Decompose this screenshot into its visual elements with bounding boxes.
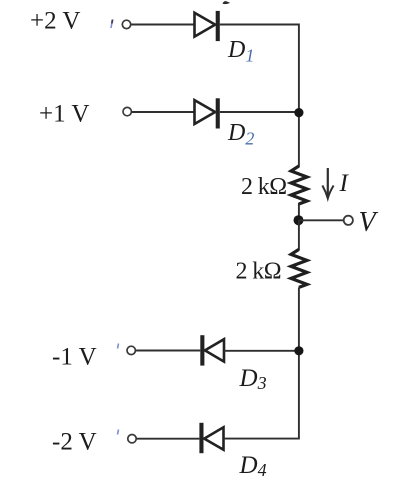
wire V node to R2 top [298,220,300,250]
terminal -2V [128,435,136,443]
junction dot D2/rail [294,108,303,117]
diode D3 [200,335,224,365]
wire +1V terminal to D2 anode [132,111,195,113]
svg-text:D4: D4 [239,452,267,480]
wire +2V terminal to D1 anode [131,24,195,26]
wire V node to output terminal [299,219,344,221]
terminal V output [344,216,353,225]
svg-text:V: V [359,207,379,238]
resistor R1 2 kOhm [291,166,307,204]
wire D4 anode to bottom-right corner [224,438,300,440]
diode D1 [195,11,220,41]
svg-text:-1 V: -1 V [52,344,97,371]
svg-text:+1 V: +1 V [39,100,89,127]
svg-text:2 kΩ: 2 kΩ [241,174,286,200]
wire -1V terminal to D3 cathode [136,350,201,352]
diode D4 [199,423,223,453]
junction dot V node [294,215,304,225]
artifact tick above D1 [223,1,231,4]
svg-text:+2 V: +2 V [30,8,80,35]
current arrow I [322,168,333,198]
wire D3 anode to rail [224,350,299,352]
resistor R2 2 kOhm [291,249,307,287]
diode D2 [195,98,220,128]
wire -2V terminal to D4 cathode [136,438,199,440]
wire D2 cathode to rail [220,111,299,113]
junction dot D3/rail [294,346,303,355]
wire R2 bottom down rail to D4 corner [298,287,300,438]
svg-text:I: I [339,170,350,197]
artifact tick near -1V terminal [118,344,119,349]
wire R1 bottom to V node [298,203,300,226]
svg-text:-2 V: -2 V [52,429,97,456]
wire D1 cathode to top-right corner down to rail [220,25,299,168]
terminal +1V [123,107,131,115]
svg-text:D3: D3 [239,365,267,393]
svg-text:D1: D1 [227,37,254,66]
svg-text:D2: D2 [227,120,254,149]
terminal -1V [127,346,135,354]
artifact tick near -2V terminal [118,430,119,435]
artifact tick near +2V terminal [111,20,113,29]
terminal +2V [122,20,130,28]
svg-text:2 kΩ: 2 kΩ [236,258,281,284]
